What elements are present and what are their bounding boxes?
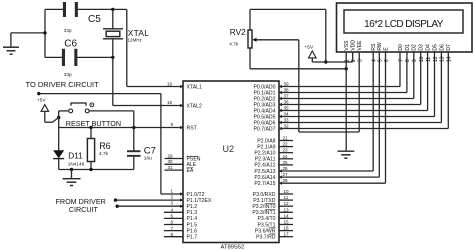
svg-text:6: 6 <box>384 59 390 62</box>
capacitor C5 <box>45 8 63 10</box>
svg-text:7: 7 <box>398 59 404 62</box>
wiper of RV2 <box>252 38 256 42</box>
svg-text:2: 2 <box>351 59 357 62</box>
svg-text:VDD: VDD <box>351 40 357 51</box>
svg-text:22: 22 <box>283 142 289 147</box>
svg-text:11: 11 <box>426 57 432 62</box>
svg-text:23: 23 <box>283 148 289 153</box>
svg-text:D7: D7 <box>446 44 452 51</box>
wire: crystal bottom node to XTAL2 pin <box>112 57 114 105</box>
ground (reset) <box>71 170 73 179</box>
svg-text:26: 26 <box>283 166 289 171</box>
svg-text:TO DRIVER CIRCUIT: TO DRIVER CIRCUIT <box>26 80 100 89</box>
svg-text:+5V: +5V <box>37 97 46 103</box>
svg-text:8: 8 <box>405 59 411 62</box>
svg-text:39: 39 <box>284 82 290 87</box>
svg-text:P1.2: P1.2 <box>187 204 198 210</box>
node: left rail joining C5/C6/ground <box>44 9 46 57</box>
svg-text:P1.6: P1.6 <box>187 228 198 234</box>
svg-text:12MHz: 12MHz <box>128 37 143 42</box>
svg-text:D0: D0 <box>398 44 404 51</box>
svg-text:17: 17 <box>284 232 290 237</box>
op-amp U2 AT89S52 microcontroller body <box>183 81 279 243</box>
svg-text:D3: D3 <box>419 44 425 51</box>
svg-text:VEE: VEE <box>357 40 363 51</box>
svg-text:12: 12 <box>433 56 439 62</box>
svg-text:P3.0/RXD: P3.0/RXD <box>253 192 276 198</box>
svg-text:24: 24 <box>283 154 289 159</box>
pin 30 ALE <box>165 163 184 165</box>
svg-text:P3.1/TXD: P3.1/TXD <box>253 198 276 204</box>
wire: VDD stub <box>352 52 354 62</box>
node: FROM DRIVER terminal 1 <box>114 198 117 201</box>
svg-text:4.7k: 4.7k <box>229 42 239 47</box>
svg-text:35: 35 <box>284 106 290 111</box>
svg-text:1N4148: 1N4148 <box>68 162 85 167</box>
svg-text:38: 38 <box>284 88 290 93</box>
svg-text:C7: C7 <box>144 146 156 157</box>
svg-text:R6: R6 <box>99 141 111 151</box>
svg-text:33: 33 <box>284 118 290 123</box>
node: TO DRIVER CIRCUIT terminal <box>37 92 40 95</box>
svg-text:16*2 LCD DISPLAY: 16*2 LCD DISPLAY <box>364 19 444 30</box>
svg-text:U2: U2 <box>223 144 235 154</box>
svg-text:EA: EA <box>187 168 194 174</box>
svg-text:10: 10 <box>419 56 425 62</box>
svg-text:P3.7/RD: P3.7/RD <box>256 235 276 241</box>
svg-text:D6: D6 <box>439 44 445 51</box>
svg-text:P2.0/A8: P2.0/A8 <box>257 138 275 144</box>
wire: to P1.2 <box>117 205 183 207</box>
wire: +5V to VDD <box>312 61 352 63</box>
svg-text:4.7k: 4.7k <box>99 151 109 157</box>
svg-text:P3.5/T1: P3.5/T1 <box>257 222 275 228</box>
svg-text:27: 27 <box>283 172 289 177</box>
wire: RV2 top to +5V rail <box>250 8 326 10</box>
svg-text:6: 6 <box>171 220 174 225</box>
svg-text:5: 5 <box>171 214 174 219</box>
svg-text:15: 15 <box>284 220 290 225</box>
svg-text:XTAL1: XTAL1 <box>187 84 202 90</box>
wire: reset ground rail <box>59 169 134 171</box>
svg-text:+5V: +5V <box>305 45 314 51</box>
svg-text:16: 16 <box>284 226 290 231</box>
svg-text:P1.0/T2: P1.0/T2 <box>187 192 205 198</box>
svg-text:P3.3/INT1: P3.3/INT1 <box>252 210 275 216</box>
svg-text:9: 9 <box>412 59 418 62</box>
svg-text:P1.1/T2EX: P1.1/T2EX <box>187 198 212 204</box>
svg-text:P2.5/A13: P2.5/A13 <box>254 169 275 175</box>
wire: reset left rail <box>58 111 60 128</box>
svg-text:13: 13 <box>440 56 446 62</box>
svg-text:P1.5: P1.5 <box>187 222 198 228</box>
push button RESET BUTTON <box>59 110 69 112</box>
svg-text:VSS: VSS <box>344 40 350 51</box>
svg-text:D1: D1 <box>405 44 411 51</box>
svg-text:C6: C6 <box>64 38 77 49</box>
svg-text:32: 32 <box>284 124 290 129</box>
resistor R6 4.7k <box>90 128 92 139</box>
svg-text:3: 3 <box>358 59 364 62</box>
svg-text:11: 11 <box>284 195 289 200</box>
svg-text:D11: D11 <box>68 152 83 161</box>
svg-text:14: 14 <box>284 213 290 218</box>
svg-text:25: 25 <box>283 160 289 165</box>
svg-text:P3.6/WR: P3.6/WR <box>255 228 276 234</box>
capacitor C7 10u <box>127 150 141 152</box>
diode D11 1N4148 <box>58 128 60 151</box>
svg-text:D2: D2 <box>412 44 418 51</box>
wire: to P1.1/T2EX <box>116 199 184 201</box>
unconnected stubs P1.3-P1.7 <box>164 211 183 213</box>
svg-text:10: 10 <box>284 189 290 194</box>
svg-text:4: 4 <box>171 208 174 213</box>
svg-text:37: 37 <box>284 94 290 99</box>
node: FROM DRIVER terminal 2 <box>116 205 119 208</box>
svg-text:1: 1 <box>345 59 351 62</box>
svg-text:33p: 33p <box>64 72 72 77</box>
wire: to P1.0/T2 <box>39 93 161 95</box>
wire: +5V to reset rail <box>53 118 59 123</box>
svg-text:C5: C5 <box>88 14 101 25</box>
svg-text:19: 19 <box>167 81 173 86</box>
wire: RV2 wiper to VEE <box>298 40 300 132</box>
svg-text:29: 29 <box>168 153 174 158</box>
svg-text:D4: D4 <box>426 44 432 51</box>
ground (left, near C5/C6) <box>11 32 45 34</box>
svg-text:4: 4 <box>372 59 378 62</box>
svg-text:P2.6/A14: P2.6/A14 <box>254 175 275 181</box>
svg-text:13: 13 <box>284 207 290 212</box>
svg-text:36: 36 <box>284 100 290 105</box>
crystal XTAL 12MHz <box>111 8 114 11</box>
wire: VSS to ground <box>345 52 347 151</box>
svg-text:P3.4/T0: P3.4/T0 <box>257 216 275 222</box>
svg-text:P2.1/A9: P2.1/A9 <box>257 144 275 150</box>
svg-text:31: 31 <box>168 165 174 170</box>
svg-text:P2.2/A10: P2.2/A10 <box>254 151 275 157</box>
svg-text:D5: D5 <box>432 44 438 51</box>
svg-text:RV2: RV2 <box>230 27 246 37</box>
svg-text:21: 21 <box>283 136 289 141</box>
svg-text:P1.3: P1.3 <box>187 210 198 216</box>
wire: crystal top node to XTAL1 pin <box>113 8 127 10</box>
svg-text:AT89S52: AT89S52 <box>221 245 245 250</box>
svg-text:P1.4: P1.4 <box>187 216 198 222</box>
wire: RST rail <box>59 127 183 129</box>
wire: RV2 bottom to VSS/ground <box>250 68 346 70</box>
svg-text:18: 18 <box>167 100 173 105</box>
svg-text:P1.7: P1.7 <box>187 235 198 241</box>
svg-text:34: 34 <box>284 112 290 117</box>
svg-text:14: 14 <box>447 56 453 62</box>
svg-text:P0.7/AD7: P0.7/AD7 <box>253 126 275 132</box>
svg-text:P2.7/A15: P2.7/A15 <box>254 181 275 187</box>
svg-text:5: 5 <box>378 59 384 62</box>
svg-text:P2.4/A12: P2.4/A12 <box>254 163 275 169</box>
overbars on P3 labels <box>265 202 276 204</box>
svg-text:RW: RW <box>377 42 383 51</box>
pin 29 PSEN <box>165 158 184 160</box>
svg-text:CIRCUIT: CIRCUIT <box>69 205 99 214</box>
svg-text:7: 7 <box>171 226 174 231</box>
svg-text:33p: 33p <box>64 28 72 33</box>
svg-text:10u: 10u <box>144 156 152 162</box>
svg-text:12: 12 <box>284 201 290 206</box>
pin 31 EA <box>165 169 184 171</box>
svg-text:30: 30 <box>168 159 174 164</box>
wire: VEE stub <box>358 52 360 132</box>
svg-text:RST: RST <box>187 125 198 131</box>
svg-text:RS: RS <box>371 43 377 51</box>
ground (LCD VSS) <box>338 150 355 152</box>
wire: button to C7 vertical <box>133 111 135 151</box>
svg-text:XTAL2: XTAL2 <box>187 103 202 109</box>
svg-text:P2.3/A11: P2.3/A11 <box>255 157 276 163</box>
svg-text:P3.2/INT0: P3.2/INT0 <box>252 204 275 210</box>
capacitor C6 <box>45 56 62 58</box>
svg-text:28: 28 <box>283 178 289 183</box>
16*2 LCD DISPLAY module <box>337 3 473 52</box>
svg-text:8: 8 <box>171 232 174 237</box>
